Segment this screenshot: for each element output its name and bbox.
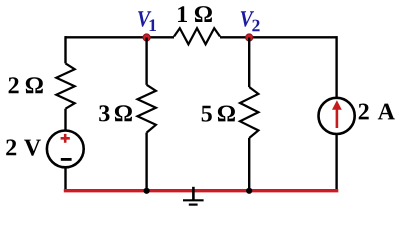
label 2-ohm value — [9, 77, 19, 93]
wire V2 branch lower (5-ohm resistor to bottom rail) — [248, 138, 250, 191]
wire V1 branch upper (node V1 to 3-ohm resistor) — [145, 38, 147, 85]
ground bar 2 — [189, 204, 198, 206]
wire bottom rail (red ground net) — [64, 189, 339, 192]
wire left vertical lower (voltage source to bottom rail) — [64, 167, 66, 191]
node V2 label — [241, 11, 254, 26]
label 2 A value — [359, 104, 369, 120]
voltage source plus sign — [61, 134, 70, 143]
wire top-right segment (1-ohm resistor to right corner, through node V2) — [220, 36, 337, 38]
node V2 subscript 2 — [252, 20, 259, 32]
current source I 2A (circle) — [319, 98, 355, 134]
wire V2 branch upper (node V2 to 5-ohm resistor) — [248, 38, 250, 88]
node V1 subscript 1 — [150, 19, 156, 31]
voltage source minus sign — [61, 158, 72, 161]
resistor R3 3-ohm (vertical zigzag) — [138, 85, 156, 133]
wire top-left segment (left corner to 1-ohm resistor, through node V1) — [66, 36, 175, 38]
resistor R2 2-ohm (vertical zigzag) — [56, 63, 74, 108]
current source arrow (upward, red) — [336, 106, 339, 129]
wire left vertical middle (2-ohm resistor to voltage source) — [64, 109, 66, 131]
wire V1 branch lower (3-ohm resistor to bottom rail) — [145, 133, 147, 191]
node V1 label — [138, 11, 151, 26]
wire right vertical lower (current source to bottom rail) — [335, 134, 337, 191]
node V2 dot — [246, 34, 253, 41]
voltage source V 2V (circle) — [47, 131, 84, 168]
label 2 V value — [6, 139, 16, 155]
label 1-ohm value — [178, 6, 187, 22]
wire left vertical upper (top corner to 2-ohm resistor) — [64, 36, 66, 63]
junction dot (3-ohm to rail) — [144, 188, 150, 194]
resistor R1 1-ohm (horizontal zigzag between V1 and V2) — [174, 28, 220, 44]
resistor R5 5-ohm (vertical zigzag) — [240, 87, 258, 138]
wire right vertical upper (top corner to current source) — [335, 36, 337, 98]
junction dot (5-ohm to rail) — [246, 188, 252, 194]
node V1 dot — [143, 34, 150, 41]
label 5-ohm value — [202, 106, 212, 122]
ground stub — [192, 187, 195, 200]
ground bar 1 — [183, 199, 204, 201]
label 3-ohm value — [99, 105, 109, 121]
